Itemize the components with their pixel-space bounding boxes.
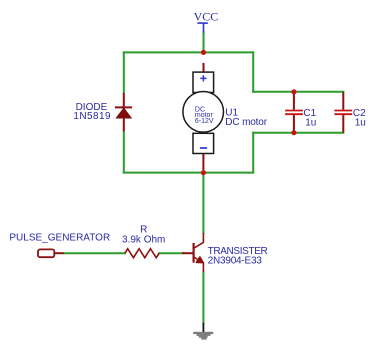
wire base net left segment xyxy=(64,252,125,254)
wire emitter net xyxy=(202,272,204,323)
svg-text:1u: 1u xyxy=(355,117,366,128)
svg-text:DC motor: DC motor xyxy=(225,117,267,128)
wire right vertical upper xyxy=(252,52,254,91)
junction node C1 bottom xyxy=(291,130,296,135)
svg-text:1u: 1u xyxy=(305,117,316,128)
junction node at VCC / top rail xyxy=(201,50,206,55)
wire collector net xyxy=(202,173,204,234)
svg-text:2N3904-E33: 2N3904-E33 xyxy=(208,256,263,267)
wire top rail xyxy=(124,51,253,53)
power symbol VCC xyxy=(197,23,208,32)
capacitor C2 bottom lead xyxy=(342,115,344,133)
port lead xyxy=(55,252,64,254)
wire base net right segment xyxy=(159,252,182,254)
motor minus terminal mark xyxy=(200,147,207,149)
junction node C1 top xyxy=(291,89,296,94)
motor inner text xyxy=(195,106,214,125)
capacitor C2 plates xyxy=(334,111,352,115)
wire capacitor bottom rail xyxy=(253,132,343,134)
capacitor C2 top lead xyxy=(342,92,344,110)
transistor Q1 base lead (red) xyxy=(182,252,193,254)
wire right vertical lower xyxy=(252,133,254,173)
motor U1 body xyxy=(183,72,224,153)
transistor Q1 emitter xyxy=(194,257,204,272)
svg-text:3.9k Ohm: 3.9k Ohm xyxy=(122,234,165,245)
resistor R zigzag xyxy=(125,249,159,258)
wire left vertical upper (top rail to diode) xyxy=(123,52,125,93)
wire left vertical lower (diode to bottom rail) xyxy=(123,131,125,172)
wire capacitor top rail xyxy=(253,91,343,93)
svg-text:PULSE_GENERATOR: PULSE_GENERATOR xyxy=(9,233,110,244)
transistor Q1 collector xyxy=(194,233,204,248)
capacitor C1 plates xyxy=(285,111,303,115)
ground symbol bars xyxy=(193,332,213,340)
svg-text:6-12V: 6-12V xyxy=(195,118,214,125)
junction node at bottom rail / collector xyxy=(201,170,206,175)
svg-text:VCC: VCC xyxy=(194,9,219,23)
capacitor C1 top lead xyxy=(293,92,295,110)
wire bottom rail xyxy=(124,172,253,174)
diode cathode bar xyxy=(115,106,132,108)
motor pin bottom (red stub) xyxy=(202,153,204,170)
motor pin top (red stub) xyxy=(203,63,205,72)
wire VCC stub to top rail xyxy=(203,32,205,52)
capacitor C1 bottom lead xyxy=(293,115,295,133)
transistor Q1 emitter arrowhead xyxy=(196,257,203,263)
port PULSE_GENERATOR terminal xyxy=(38,249,54,257)
transistor Q1 base bar xyxy=(193,243,195,263)
svg-text:1N5819: 1N5819 xyxy=(73,111,111,122)
diode D (1N5819) red lead xyxy=(123,93,125,131)
ground black stub xyxy=(202,323,204,332)
diode anode triangle xyxy=(116,108,131,118)
motor plus terminal mark xyxy=(200,75,206,81)
